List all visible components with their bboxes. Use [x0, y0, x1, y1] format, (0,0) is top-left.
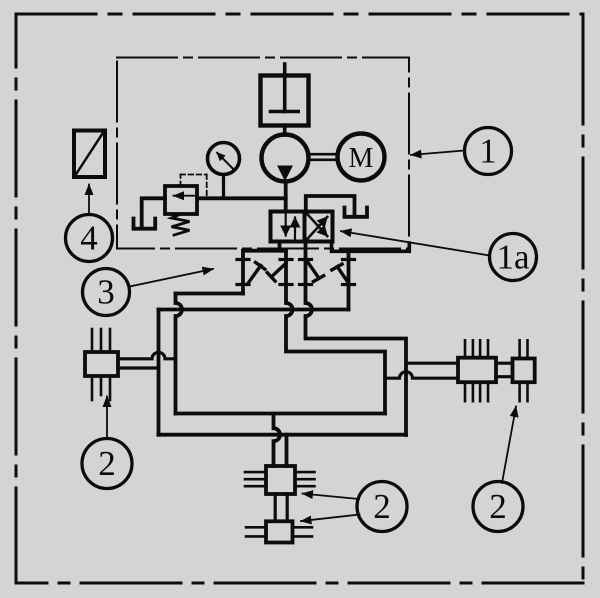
leader arrow for 2 right	[502, 407, 516, 484]
right bearing unit block 2	[513, 359, 535, 383]
bottom pipe 1 (inner loop to bearing, jog over housing)	[274, 414, 281, 467]
check valve CV2	[272, 263, 286, 276]
inner loop bottom edge	[176, 412, 386, 416]
bottom pipe 2 (housing to bearing)	[285, 435, 289, 466]
svg-text:3: 3	[97, 273, 115, 312]
inner loop left vertical (jog over housing top)	[176, 294, 183, 414]
left bearing unit	[85, 352, 118, 376]
bottom shaft (double line)	[274, 494, 277, 521]
leader arrow for 1	[411, 151, 465, 155]
check valve CV3	[308, 262, 319, 278]
housing top edge	[159, 308, 349, 312]
label circle 2 right	[473, 482, 523, 532]
label circle 2 left	[82, 439, 132, 489]
wire manifold to inner loop left	[176, 292, 244, 296]
pressure gauge	[208, 143, 240, 175]
tank symbol (relief drain)	[134, 219, 156, 229]
directional valve right position box (crossed)	[305, 212, 333, 242]
leader arrow for 4	[88, 185, 90, 215]
relief valve spring	[172, 214, 190, 235]
pipe P2 (valve to housing right)	[306, 242, 407, 436]
check valve CV4	[337, 267, 349, 284]
left bearing feed pipes	[118, 352, 176, 358]
leader arrow for 1a	[341, 231, 490, 255]
electric motor	[338, 134, 385, 181]
relief valve	[165, 186, 197, 214]
pressure line from relief valve to pump line	[197, 196, 286, 200]
housing bottom edge	[159, 433, 407, 437]
left box up arrow	[294, 218, 296, 241]
tank symbol near valve	[345, 208, 368, 217]
housing left wall	[157, 310, 161, 435]
coupling (double line)	[309, 153, 338, 156]
manifold top edge	[243, 249, 286, 253]
relief valve drain wire	[142, 198, 165, 226]
gauge stem wire	[222, 175, 225, 197]
manifold left pipe	[241, 251, 245, 294]
right bearing coupling (double line)	[496, 362, 513, 365]
wire from valve to small tank	[306, 196, 355, 214]
drain wire from valve right port	[332, 242, 410, 252]
directional valve left position box	[271, 212, 305, 242]
svg-text:2: 2	[489, 487, 507, 526]
label circle 2 middle	[357, 482, 407, 532]
svg-text:4: 4	[80, 219, 98, 258]
pump outlet wire	[284, 182, 288, 212]
right bearing unit block 1	[458, 358, 496, 383]
leader arrow for 2 left	[106, 397, 108, 440]
bottom bearing block lower	[266, 521, 293, 542]
leader arrows for 2 middle	[303, 494, 360, 499]
right bearing feed pipes	[406, 362, 458, 365]
check valve CV1	[248, 266, 261, 285]
pipe P1 (valve to lower loop)	[286, 251, 385, 414]
label circle 1a	[490, 234, 537, 281]
svg-text:2: 2	[373, 487, 391, 526]
power unit boundary (dash-dot enclosure)	[117, 58, 409, 249]
svg-text:1: 1	[479, 132, 497, 171]
svg-text:M: M	[349, 143, 374, 174]
label circle 4	[66, 215, 113, 262]
pump	[262, 135, 309, 182]
bottom bearing block upper	[266, 466, 295, 494]
filter symbol (component 4)	[74, 131, 105, 178]
relief valve pilot line (dashed)	[181, 175, 207, 198]
manifold right pipe	[347, 251, 351, 309]
wire valve left port to manifold	[278, 242, 282, 251]
label circle 3	[83, 269, 130, 316]
left box down arrow	[285, 213, 287, 236]
svg-text:2: 2	[98, 444, 116, 483]
leader arrow for 3	[130, 269, 214, 287]
svg-text:1a: 1a	[496, 238, 530, 277]
reservoir (pressurized tank)	[261, 76, 309, 126]
label circle 1	[465, 128, 512, 175]
